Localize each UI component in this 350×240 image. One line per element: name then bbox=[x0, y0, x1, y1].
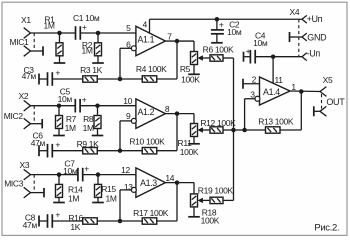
ground stub at A1.4 pin 2 bbox=[243, 79, 260, 89]
svg-text:X1: X1 bbox=[21, 15, 31, 25]
pin 14 label bbox=[165, 173, 174, 183]
svg-text:R3 1K: R3 1K bbox=[80, 65, 103, 75]
capacitor C3 47м bbox=[22, 65, 61, 86]
svg-text:+: + bbox=[55, 210, 60, 220]
pin 9 label bbox=[126, 111, 131, 121]
resistor R8 1M bbox=[83, 106, 101, 133]
wire to summing bus bbox=[223, 199, 234, 201]
svg-text:3: 3 bbox=[250, 89, 255, 99]
svg-text:R9 1K: R9 1K bbox=[77, 139, 100, 149]
pin 12 label bbox=[121, 165, 130, 175]
pin 5 label bbox=[126, 23, 131, 33]
capacitor C4 10м bbox=[246, 30, 268, 63]
svg-text:R19 100K: R19 100K bbox=[198, 185, 234, 195]
junction bbox=[299, 89, 304, 94]
pin 13 label bbox=[124, 182, 133, 192]
pin 6 label bbox=[126, 40, 131, 50]
svg-text:X3: X3 bbox=[20, 160, 30, 170]
svg-text:R5: R5 bbox=[180, 64, 191, 74]
wire summing bus to node bbox=[234, 129, 245, 131]
capacitor C5 10м bbox=[58, 86, 87, 112]
svg-text:12: 12 bbox=[121, 165, 130, 175]
svg-text:+: + bbox=[55, 139, 60, 149]
wire R to node bbox=[97, 150, 120, 152]
capacitor C6 47м bbox=[31, 130, 61, 157]
svg-text:10м: 10м bbox=[253, 38, 268, 48]
resistor R1 1M bbox=[43, 14, 63, 56]
svg-text:X2: X2 bbox=[19, 91, 29, 101]
svg-text:MIC3: MIC3 bbox=[4, 179, 24, 189]
capacitor C1 10м bbox=[73, 13, 100, 40]
ground bbox=[188, 207, 200, 217]
ground stub at C8 bbox=[39, 216, 48, 227]
ground stub at X2 sleeve bbox=[31, 119, 43, 128]
op-amp A1.3 bbox=[131, 168, 165, 198]
pin 8 label bbox=[165, 104, 170, 114]
junction bbox=[175, 111, 180, 116]
svg-text:+: + bbox=[84, 163, 89, 173]
summing bus wire bbox=[233, 58, 235, 200]
wire R to node bbox=[97, 220, 120, 222]
junction bbox=[95, 103, 100, 108]
svg-text:10: 10 bbox=[123, 96, 132, 106]
wire C to R3 bbox=[52, 78, 82, 80]
ground stub at X1 sleeve bbox=[31, 46, 44, 55]
wire feedback to output node bbox=[157, 183, 177, 221]
svg-text:MIC2: MIC2 bbox=[4, 111, 24, 121]
junction bbox=[231, 128, 236, 133]
svg-text:R10 100K: R10 100K bbox=[129, 136, 165, 146]
svg-text:+: + bbox=[82, 22, 87, 32]
ground bbox=[188, 137, 200, 144]
svg-text:A1.1: A1.1 bbox=[137, 34, 154, 44]
wire X1 to C1 bbox=[31, 32, 76, 34]
resistor R2 1M bbox=[81, 33, 101, 56]
svg-text:1M: 1M bbox=[65, 123, 76, 133]
junction bbox=[175, 39, 180, 44]
pin 11 label bbox=[275, 75, 284, 85]
svg-text:5: 5 bbox=[126, 23, 131, 33]
wire node to R10 bbox=[120, 150, 142, 152]
resistor R6 100K bbox=[203, 44, 234, 61]
junction bbox=[242, 128, 247, 133]
wire to summing bus bbox=[223, 129, 234, 131]
wire wiper to R12 bbox=[202, 129, 210, 131]
svg-text:A1.2: A1.2 bbox=[137, 107, 154, 117]
ground bbox=[53, 129, 65, 136]
junction bbox=[215, 17, 220, 22]
wire wiper to R6 bbox=[202, 57, 210, 59]
-Un label bbox=[307, 49, 321, 59]
svg-text:47м: 47м bbox=[22, 71, 37, 81]
svg-text:8: 8 bbox=[165, 104, 170, 114]
wire wiper to R19 bbox=[202, 199, 210, 201]
resistor R17 100K bbox=[133, 208, 169, 224]
potentiometer R11 100K bbox=[178, 124, 203, 157]
ground bbox=[53, 197, 65, 202]
ground stub at C6 bbox=[39, 145, 48, 156]
ground stub at X5 sleeve bbox=[314, 106, 320, 116]
connector X5 (output) bbox=[320, 75, 333, 116]
resistor R10 100K bbox=[129, 136, 165, 154]
resistor R15 1M bbox=[95, 175, 117, 204]
pin 3 label bbox=[250, 89, 255, 99]
connector X4 (power) bbox=[290, 7, 307, 61]
svg-text:R4 100K: R4 100K bbox=[136, 64, 167, 74]
resistor R4 100K bbox=[136, 64, 167, 82]
resistor R3 1K bbox=[80, 65, 103, 82]
resistor R16 1K bbox=[68, 213, 97, 232]
svg-text:11: 11 bbox=[275, 75, 284, 85]
connector X3 (MIC3 input) bbox=[4, 160, 34, 198]
wire C to R16 bbox=[52, 220, 82, 222]
svg-text:9: 9 bbox=[126, 111, 131, 121]
svg-text:Рис.2.: Рис.2. bbox=[314, 223, 339, 234]
svg-text:47м: 47м bbox=[31, 138, 46, 148]
capacitor C8 47м bbox=[23, 210, 61, 230]
op-amp A1.1 bbox=[131, 26, 165, 56]
resistor R9 1K bbox=[77, 139, 100, 154]
wire A1.2 inverting input to node bbox=[120, 121, 132, 151]
svg-text:10м: 10м bbox=[63, 166, 78, 176]
ground bbox=[188, 65, 200, 75]
svg-text:+: + bbox=[82, 95, 87, 105]
svg-text:4: 4 bbox=[143, 20, 148, 30]
wire X3 to C7 bbox=[31, 174, 78, 176]
svg-text:+: + bbox=[55, 68, 60, 78]
capacitor C7 10м bbox=[63, 159, 89, 182]
ground bbox=[54, 56, 66, 63]
svg-text:MIC1: MIC1 bbox=[10, 37, 30, 47]
wire R to node bbox=[97, 78, 120, 80]
svg-text:+: + bbox=[246, 46, 251, 56]
svg-text:X5: X5 bbox=[323, 75, 333, 85]
ground bbox=[92, 129, 104, 136]
wire C to R9 bbox=[52, 150, 82, 152]
pin 2 label bbox=[252, 74, 257, 84]
svg-text:R17 100K: R17 100K bbox=[133, 208, 169, 218]
wire C to A1.2 noninverting input bbox=[80, 105, 136, 107]
svg-text:+: + bbox=[219, 19, 224, 29]
wire node to R13 bbox=[245, 129, 266, 131]
junction bbox=[57, 31, 62, 36]
wire R13 to output node bbox=[280, 92, 301, 131]
svg-text:R12 100K: R12 100K bbox=[200, 118, 236, 128]
svg-text:1M: 1M bbox=[81, 46, 92, 56]
junction bbox=[118, 77, 123, 82]
potentiometer R18 100K bbox=[191, 194, 220, 226]
svg-text:R6 100K: R6 100K bbox=[203, 44, 234, 54]
wire A1.3 inverting input to node bbox=[120, 190, 132, 221]
svg-text:7: 7 bbox=[167, 31, 172, 41]
svg-text:1K: 1K bbox=[70, 222, 80, 232]
svg-text:1M: 1M bbox=[83, 123, 94, 133]
svg-text:R13 100K: R13 100K bbox=[258, 117, 294, 127]
resistor R19 100K bbox=[198, 185, 234, 203]
svg-text:A1.4: A1.4 bbox=[263, 87, 280, 97]
junction bbox=[96, 172, 101, 177]
resistor R14 1M bbox=[56, 175, 84, 204]
junction bbox=[271, 54, 276, 59]
svg-text:+Uп: +Uп bbox=[307, 14, 323, 24]
junction bbox=[57, 103, 62, 108]
svg-text:2: 2 bbox=[252, 74, 257, 84]
ground stub at X4 GND pin bbox=[290, 32, 303, 42]
wire A1.1 output to level pot bbox=[165, 41, 194, 51]
svg-text:C1 10м: C1 10м bbox=[73, 13, 100, 23]
svg-text:10м: 10м bbox=[227, 27, 242, 37]
capacitor C2 10м bbox=[211, 19, 242, 43]
connector X2 (MIC2 input) bbox=[4, 91, 34, 129]
wire A1.3 output to level pot bbox=[165, 183, 194, 194]
svg-text:1M: 1M bbox=[105, 193, 116, 203]
wire A1.2 output to level pot bbox=[165, 114, 194, 124]
svg-text:-Uп: -Uп bbox=[307, 49, 321, 59]
potentiometer R5 100K bbox=[180, 52, 203, 85]
ground bbox=[92, 197, 104, 202]
ground stub at C4 bbox=[244, 52, 251, 62]
svg-text:14: 14 bbox=[165, 173, 174, 183]
resistor R7 1M bbox=[56, 106, 77, 133]
svg-text:100K: 100K bbox=[201, 216, 220, 226]
pin 4 label bbox=[143, 20, 148, 30]
ground stub at X3 sleeve bbox=[31, 188, 45, 197]
pin 1 label bbox=[291, 82, 296, 92]
svg-text:A1.3: A1.3 bbox=[140, 178, 157, 188]
resistor R12 100K bbox=[200, 118, 236, 133]
junction bbox=[57, 172, 62, 177]
svg-text:100K: 100K bbox=[181, 75, 200, 85]
wire C4 to -Un rail bbox=[255, 56, 302, 58]
OUT label bbox=[326, 97, 345, 107]
resistor R13 100K bbox=[258, 117, 294, 134]
caption Рис.2. bbox=[314, 223, 339, 234]
pin 7 label bbox=[167, 31, 172, 41]
junction bbox=[96, 31, 101, 36]
wire A1.1 inverting input to node bbox=[120, 48, 132, 79]
GND label bbox=[307, 32, 327, 42]
ground bbox=[211, 42, 223, 44]
svg-text:1M: 1M bbox=[68, 193, 79, 203]
pin 10 label bbox=[123, 96, 132, 106]
svg-text:GND: GND bbox=[307, 32, 327, 42]
wire A1.1 pin 4 to +Un rail bbox=[150, 19, 303, 33]
svg-text:1: 1 bbox=[291, 82, 296, 92]
ground bbox=[92, 56, 104, 63]
+Un label bbox=[307, 14, 323, 24]
wire -Un to A1.4 pin 11 bbox=[272, 57, 274, 84]
svg-text:X4: X4 bbox=[290, 7, 300, 17]
svg-text:1M: 1M bbox=[43, 20, 54, 30]
junction bbox=[118, 148, 123, 153]
wire feedback to output node bbox=[157, 114, 177, 151]
svg-text:100K: 100K bbox=[180, 147, 199, 157]
junction bbox=[118, 219, 123, 224]
wire C to A1.1 noninverting input bbox=[80, 32, 136, 34]
wire node to R4 bbox=[120, 78, 142, 80]
wire A1.4 inverting input to summing node bbox=[245, 99, 256, 130]
svg-text:47м: 47м bbox=[23, 220, 38, 230]
wire feedback to output node bbox=[157, 41, 177, 79]
connector X1 (MIC1 input) bbox=[10, 15, 35, 56]
junction bbox=[175, 180, 180, 185]
wire to summing bus bbox=[223, 57, 234, 59]
wire X2 to C5 bbox=[31, 105, 76, 107]
op-amp A1.4 bbox=[255, 77, 290, 105]
wire A1.4 output to X5 bbox=[290, 90, 320, 93]
ground stub at C3 bbox=[39, 74, 48, 85]
svg-text:OUT: OUT bbox=[326, 97, 345, 107]
op-amp A1.2 bbox=[131, 99, 165, 128]
wire C to A1.3 noninverting input bbox=[83, 174, 136, 176]
wire node to R17 bbox=[120, 220, 142, 222]
svg-text:10м: 10м bbox=[58, 94, 73, 104]
